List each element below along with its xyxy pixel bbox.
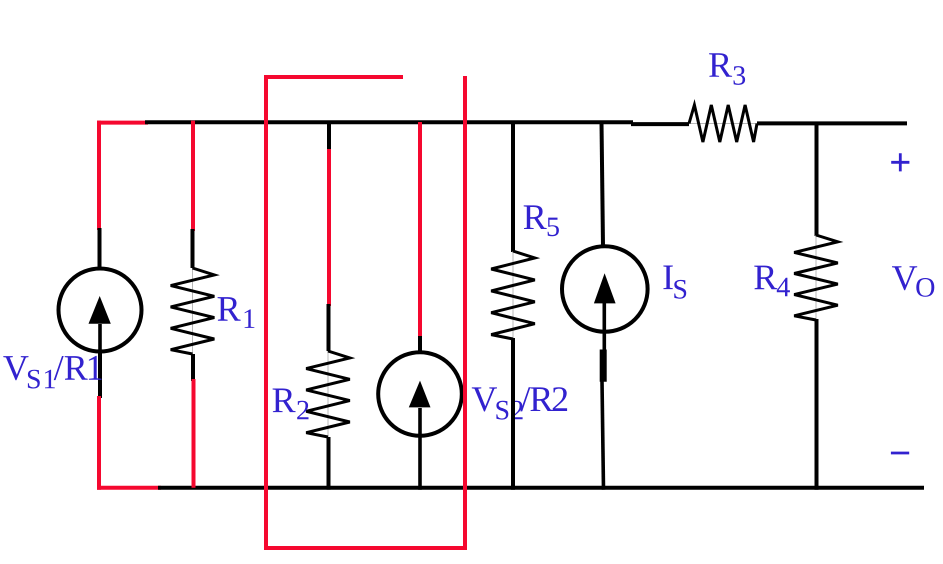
wire top rail red segment <box>97 121 148 125</box>
resistor R1 <box>171 268 215 354</box>
resistor R4 <box>794 235 838 320</box>
current source VS1/R1 arrow head <box>89 296 111 324</box>
wire R1 branch red top <box>191 121 195 231</box>
wire IS branch lower segment <box>602 381 604 490</box>
wire left source branch red bottom <box>97 396 101 490</box>
wire left source branch black above circle <box>98 228 102 268</box>
resistor R5 thin center line <box>512 251 514 339</box>
label VS2/R2 <box>472 387 567 419</box>
label R5 <box>524 205 559 236</box>
wire R1 branch red bottom <box>192 379 196 488</box>
resistor R2 thin center line <box>327 351 329 437</box>
label VO <box>892 266 934 297</box>
wire IS branch thick mark below circle <box>600 350 607 382</box>
resistor R4 thin center line <box>815 235 817 320</box>
wire bottom rail red segment <box>97 486 161 490</box>
red highlight loop bottom edge <box>264 546 467 550</box>
red highlight loop top edge <box>264 75 403 79</box>
current source VS2/R2 circle <box>378 352 462 436</box>
current source IS arrow head <box>594 273 616 303</box>
current source VS2/R2 arrow head <box>409 381 431 408</box>
wire bottom rail black <box>158 486 924 490</box>
wire R1 branch black above resistor <box>191 229 195 268</box>
resistor R3 thin center line <box>689 123 757 125</box>
current source VS1/R1 arrow tail <box>98 324 102 352</box>
wire top rail black left segment <box>145 120 633 124</box>
wire R2 branch black below resistor <box>327 437 331 490</box>
label VS1/R1 <box>3 356 101 389</box>
wire R2 branch black stub at rail <box>327 122 331 151</box>
resistor R2 <box>306 351 350 437</box>
wire top rail black segment right of jog <box>631 122 689 126</box>
wire R5 branch black above resistor <box>511 122 515 252</box>
wire R4 branch black above resistor <box>815 122 819 236</box>
wire R2 branch black above resistor <box>327 304 331 351</box>
resistor R1 thin center line <box>192 268 194 354</box>
current source VS2/R2 arrow tail <box>418 408 422 490</box>
label R1 <box>218 297 255 328</box>
label R3 <box>709 53 745 85</box>
resistor R3 <box>689 105 757 142</box>
label IS <box>663 266 686 299</box>
label R4 <box>754 266 790 297</box>
red highlight loop right edge <box>463 76 467 548</box>
plus sign output polarity <box>891 153 909 171</box>
wire R2 branch red middle <box>327 149 331 306</box>
current source IS circle <box>562 246 648 332</box>
wire IS branch black above circle <box>602 122 604 246</box>
current source VS1/R1 circle <box>59 269 142 352</box>
wire VS2 source branch red top <box>418 122 422 338</box>
resistor R5 <box>491 251 535 339</box>
wire top rail black right of R3 <box>757 121 907 125</box>
red highlight loop left edge <box>264 76 268 548</box>
wire R5 branch black below resistor <box>511 338 515 490</box>
wire R1 branch black below resistor <box>191 354 195 381</box>
wire left source branch black below circle <box>98 352 102 398</box>
label R2 <box>273 389 309 420</box>
wire VS2 source branch black stub above circle <box>418 336 422 352</box>
current source IS arrow tail <box>602 302 606 352</box>
wire R4 branch black below resistor <box>815 319 819 490</box>
wire left source branch red top <box>97 121 101 230</box>
minus sign output polarity <box>891 452 909 455</box>
